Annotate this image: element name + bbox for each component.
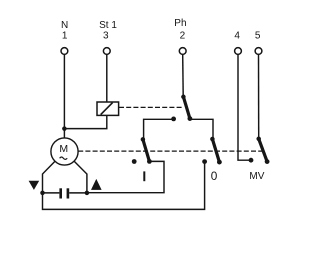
wire St1 terminal to relay coil: [106, 55, 108, 102]
wire N terminal to motor: [63, 55, 65, 139]
switch MV blade: [256, 137, 269, 164]
svg-text:4: 4: [234, 31, 240, 42]
terminal 2: [179, 48, 186, 55]
wire Ph blade output to switch 0 pivot: [190, 119, 213, 139]
wire Ph contact to switch I pivot: [144, 119, 174, 139]
svg-text:N: N: [61, 20, 68, 31]
terminal 4: [235, 48, 242, 55]
wire motor left lead: [43, 161, 56, 193]
contact dot I left: [132, 159, 137, 164]
label I: [143, 171, 145, 181]
marker triangle up: [91, 179, 102, 190]
svg-text:M: M: [59, 143, 68, 155]
svg-text:0: 0: [211, 169, 218, 183]
switch I blade: [141, 137, 152, 164]
svg-text:MV: MV: [249, 171, 264, 182]
switch Ph blade: [181, 95, 192, 121]
wire terminal 5 to MV pivot: [258, 55, 260, 139]
svg-text:2: 2: [180, 31, 186, 42]
capacitor C1: [43, 188, 88, 198]
svg-text:5: 5: [255, 31, 261, 42]
wire switch I output to capacitor node: [87, 161, 164, 192]
svg-text:1: 1: [62, 31, 68, 42]
relay coil K1: [97, 102, 119, 115]
switch 0 blade: [210, 137, 222, 165]
marker triangle down: [29, 181, 40, 190]
contact dot Ph left: [171, 117, 176, 122]
terminal 1: [61, 48, 68, 55]
wire relay coil return to N: [64, 115, 106, 128]
contact dot MV left: [249, 158, 254, 163]
svg-text:St 1: St 1: [99, 20, 117, 31]
wire motor right lead: [74, 161, 87, 193]
dashed mechanical link relay to Ph switch: [119, 106, 182, 108]
junction dot capacitor left node: [40, 191, 45, 196]
dashed mechanical link motor to MV blade: [78, 150, 262, 152]
junction dot capacitor right node: [85, 191, 90, 196]
wire Ph terminal to switch pivot: [182, 55, 185, 97]
motor M1: [51, 138, 78, 165]
wire terminal 4 to MV contact: [238, 55, 250, 161]
terminal 5: [255, 48, 262, 55]
svg-text:Ph: Ph: [174, 18, 186, 29]
svg-text:3: 3: [103, 31, 109, 42]
contact dot 0 left: [202, 159, 207, 164]
wire 0 contact to bottom rail: [43, 162, 205, 210]
terminal 3: [103, 48, 110, 55]
junction dot relay return / N wire: [62, 126, 67, 131]
